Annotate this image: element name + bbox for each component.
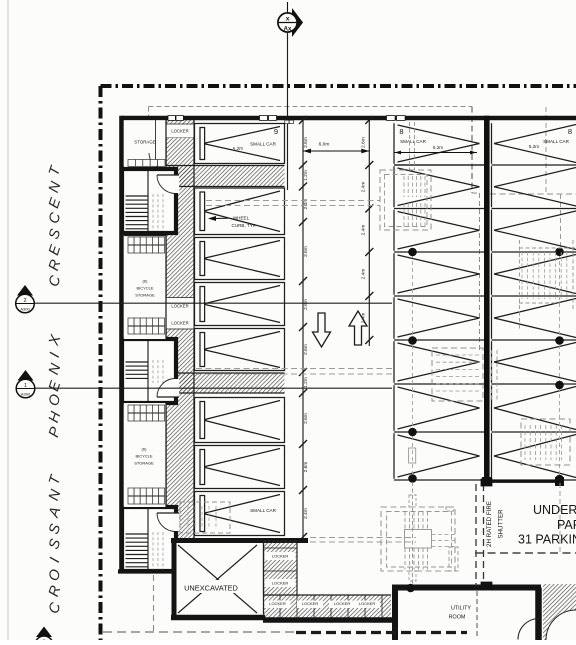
wall boxes cluster 2 [260, 116, 294, 124]
svg-text:LOCKER: LOCKER [171, 304, 188, 309]
right stall 8 labels [529, 127, 572, 149]
column dots middle [408, 248, 417, 483]
svg-text:STORAGE: STORAGE [134, 461, 154, 466]
column dots right [555, 248, 564, 484]
svg-text:2.6m: 2.6m [303, 413, 309, 424]
svg-text:(6): (6) [143, 279, 149, 284]
bicycle storage room 1 [124, 235, 166, 339]
overlay stair B [432, 348, 497, 401]
svg-text:UNDERG: UNDERG [533, 503, 576, 517]
locker strip bottom row [264, 595, 392, 620]
svg-text:9: 9 [274, 127, 278, 136]
bottom wall [171, 615, 265, 621]
svg-text:2.6m: 2.6m [303, 299, 309, 310]
svg-text:LOCKER: LOCKER [171, 321, 188, 326]
property line horizontal [101, 84, 576, 88]
svg-text:SMALL CAR: SMALL CAR [543, 139, 570, 144]
svg-text:1.2m: 1.2m [303, 170, 309, 181]
locker cells mid [166, 298, 194, 330]
svg-text:2.6m: 2.6m [303, 246, 309, 257]
stall 9 labels [233, 127, 278, 151]
outer wall left [119, 116, 124, 573]
overlay stair C [521, 419, 570, 465]
svg-text:LOCKER: LOCKER [302, 601, 319, 606]
overlay stair A [380, 122, 431, 230]
section marker 2/A300 [16, 285, 35, 313]
svg-text:2.6m: 2.6m [361, 137, 367, 148]
overhang dashed line right [490, 107, 576, 252]
svg-text:2.4m: 2.4m [361, 225, 367, 236]
middle stall rows [394, 123, 484, 480]
svg-text:SHUTTER: SHUTTER [498, 509, 505, 539]
outer wall top [122, 116, 576, 121]
svg-text:WHEEL: WHEEL [233, 216, 250, 221]
right stall rows [492, 123, 576, 480]
svg-text:5.2m: 5.2m [433, 145, 443, 150]
svg-text:(6): (6) [142, 447, 148, 452]
svg-text:31 PARKIN: 31 PARKIN [518, 533, 576, 547]
bottom dashed line gray [103, 631, 296, 633]
wall boxes cluster 1 [168, 116, 183, 121]
svg-text:2.6m: 2.6m [303, 344, 309, 355]
locker strip vertical bottom [264, 541, 298, 596]
svg-text:A300: A300 [20, 307, 30, 312]
ramp dash pair bottom [310, 538, 416, 543]
parking stall row 3 [195, 238, 285, 280]
section line 1 [35, 387, 392, 389]
traffic arrow down [313, 313, 331, 347]
hatched walk band 2 [166, 373, 285, 393]
parking stall row 5 [195, 329, 285, 371]
svg-text:STORAGE: STORAGE [135, 293, 155, 298]
parking stall 9 SMALL CAR [195, 124, 285, 164]
svg-text:2: 2 [23, 298, 26, 304]
parking stall row 4 [195, 283, 285, 326]
svg-text:ROOM: ROOM [449, 615, 466, 621]
wheel curb typ label [208, 216, 257, 228]
storage room [124, 120, 166, 169]
central wall [484, 116, 490, 482]
street name CRESCENT [46, 163, 65, 288]
hatched locker strip [166, 118, 194, 540]
svg-text:2.4m: 2.4m [361, 269, 367, 280]
unexcavated left wall [172, 538, 177, 620]
svg-text:1.2m: 1.2m [303, 377, 309, 388]
svg-text:SMALL CAR: SMALL CAR [250, 508, 277, 513]
column grid dashed middle [409, 254, 416, 480]
section cut line vertical [287, 32, 289, 190]
overlay stair G right [519, 240, 576, 330]
stair core 3 [122, 507, 179, 571]
fire shutter label [486, 501, 505, 547]
section marker bottom partial [35, 627, 53, 645]
wall boxes cluster 3 [387, 116, 406, 121]
svg-text:1: 1 [24, 383, 27, 389]
svg-text:LOCKER: LOCKER [272, 554, 289, 559]
svg-text:2H RATED FIRE: 2H RATED FIRE [486, 501, 493, 547]
underground parking label [518, 503, 576, 547]
wall below right stalls [483, 478, 564, 486]
unexcavated top wall [171, 538, 308, 543]
dimension chain 1 [299, 116, 309, 541]
svg-text:LOCKER: LOCKER [272, 581, 289, 586]
overlay stair D [381, 482, 458, 585]
stair core 2 [122, 339, 179, 403]
svg-text:PARK: PARK [557, 518, 576, 532]
svg-text:SMALL CAR: SMALL CAR [400, 139, 427, 144]
overhang dashed line top [149, 107, 480, 351]
svg-text:BICYCLE: BICYCLE [135, 454, 152, 459]
unexcavated room [177, 543, 264, 615]
svg-text:6.0m: 6.0m [319, 142, 330, 148]
hatch corner bottom right [543, 584, 576, 640]
svg-text:Ax: Ax [284, 27, 292, 33]
dimension chain 2 [361, 116, 374, 346]
middle stall 8 labels [394, 127, 477, 154]
svg-text:LOCKER: LOCKER [269, 601, 286, 606]
ramp dash pair upper [206, 201, 380, 206]
dashed line right of utility [475, 483, 576, 553]
street name PHOENIX [46, 332, 65, 439]
svg-text:UNEXCAVATED: UNEXCAVATED [184, 584, 238, 593]
utility wall dot [406, 584, 415, 593]
scan edge line [7, 0, 9, 640]
column grid dashed right [559, 254, 561, 478]
parking stall row 7 [195, 446, 285, 489]
svg-text:8: 8 [399, 127, 403, 136]
svg-text:LOCKER: LOCKER [334, 601, 351, 606]
fire shutter dashed lines [476, 479, 492, 589]
svg-text:A300: A300 [21, 392, 31, 397]
svg-text:LOCKER: LOCKER [171, 129, 188, 134]
svg-text:BICYCLE: BICYCLE [136, 286, 153, 291]
svg-text:5.2m: 5.2m [529, 144, 539, 149]
street name CROISSANT [46, 472, 65, 615]
svg-text:SMALL CAR: SMALL CAR [250, 142, 277, 147]
svg-text:x: x [286, 16, 290, 23]
stall 8L SMALL CAR label [250, 508, 277, 513]
svg-text:CURB, TYP.: CURB, TYP. [231, 223, 256, 228]
parking stall row 6 [195, 398, 285, 443]
svg-text:5.2m: 5.2m [233, 146, 244, 152]
utility room [392, 588, 541, 641]
ramp dash pair lower [196, 369, 393, 375]
svg-text:2.6m: 2.6m [303, 137, 309, 148]
svg-text:8: 8 [568, 127, 572, 136]
overlay stair E [180, 502, 230, 533]
aisle dimension 6.0m [303, 142, 369, 154]
svg-text:UTILITY: UTILITY [451, 606, 471, 612]
svg-text:2.4m: 2.4m [303, 508, 309, 519]
svg-text:2.6m: 2.6m [303, 462, 309, 473]
core 3 bottom wall [118, 569, 176, 573]
parking stall row 8 SMALL CAR [195, 492, 285, 536]
hatched walk band 1 [166, 166, 285, 187]
bicycle storage room 2 [124, 403, 166, 507]
property line vertical [99, 86, 103, 640]
section line 2 [34, 302, 392, 304]
svg-text:LOCKER: LOCKER [359, 601, 376, 606]
stair core 1 [122, 169, 179, 233]
bottom dashed line black [296, 631, 467, 634]
svg-text:2.4m: 2.4m [361, 182, 367, 193]
svg-text:STORAGE: STORAGE [134, 139, 155, 144]
section marker 1/A300 [16, 370, 35, 398]
section marker 3/A300 top [278, 2, 303, 37]
parking stall row 2 [195, 188, 285, 235]
traffic arrow up [349, 311, 367, 345]
svg-text:2.4m: 2.4m [361, 313, 367, 324]
locker cells top [166, 124, 194, 138]
